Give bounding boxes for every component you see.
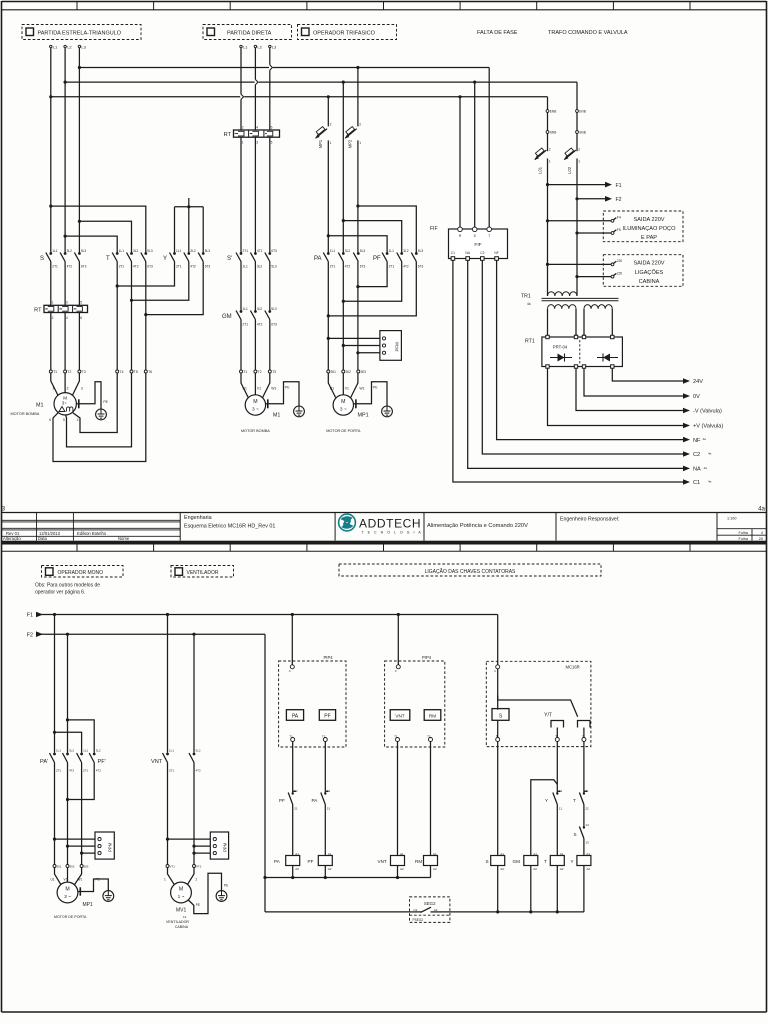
svg-text:4T2: 4T2 bbox=[190, 264, 196, 268]
svg-text:21: 21 bbox=[294, 806, 298, 810]
transformer TR1 secondary B bbox=[584, 305, 612, 309]
svg-text:L3: L3 bbox=[81, 44, 86, 49]
svg-text:W1: W1 bbox=[271, 387, 276, 391]
contactor T pole 1 bbox=[116, 252, 119, 255]
svg-text:A1: A1 bbox=[295, 852, 299, 856]
wire branch PF' pole1 bbox=[55, 732, 82, 753]
svg-text:5: 5 bbox=[63, 418, 65, 422]
svg-text:C1: C1 bbox=[693, 480, 700, 486]
svg-text:PE: PE bbox=[196, 903, 200, 907]
wire Y pole1 join T4 bbox=[117, 262, 174, 287]
wire Y aux to T coil bbox=[556, 805, 558, 856]
svg-text:4a: 4a bbox=[704, 466, 708, 470]
wire 0V out bbox=[584, 368, 684, 396]
terminal 302 (porta) bbox=[66, 865, 69, 868]
svg-text:U1: U1 bbox=[330, 387, 334, 391]
svg-text:CABINA: CABINA bbox=[175, 925, 189, 929]
svg-text:A1: A1 bbox=[586, 852, 590, 856]
wire Y coil to lower rail corner bbox=[583, 866, 585, 912]
ground PE (motor M1) bbox=[76, 403, 79, 405]
svg-text:2: 2 bbox=[67, 387, 69, 391]
svg-text:NA: NA bbox=[693, 467, 701, 473]
wire PA' pole1 down bbox=[54, 763, 56, 865]
aux contact T (NC) bbox=[583, 792, 585, 794]
arrow NF bbox=[683, 437, 690, 443]
terminal SNB right bbox=[576, 131, 579, 134]
svg-text:VNT: VNT bbox=[378, 859, 387, 864]
svg-text:T2: T2 bbox=[67, 370, 71, 374]
wire FIF NF out bbox=[497, 260, 684, 439]
terminal T1 bbox=[49, 370, 52, 373]
lower return rail left bbox=[265, 911, 410, 913]
wire SEG2 left stub bbox=[410, 911, 419, 913]
svg-text:3L2: 3L2 bbox=[133, 249, 139, 253]
wire T aux to S aux bbox=[583, 805, 585, 827]
aux contact S (NO) bbox=[583, 826, 585, 828]
svg-text:C: C bbox=[289, 669, 291, 673]
svg-text:5L3: 5L3 bbox=[147, 249, 153, 253]
svg-text:3: 3 bbox=[66, 301, 68, 305]
svg-text:MP1: MP1 bbox=[358, 413, 369, 419]
svg-text:A1: A1 bbox=[533, 852, 537, 856]
fuse L02 bbox=[564, 150, 576, 160]
svg-text:LIGAÇÃO DAS CHAVES CONTATORAS: LIGAÇÃO DAS CHAVES CONTATORAS bbox=[425, 568, 516, 575]
wire Y bar bbox=[175, 206, 204, 208]
svg-text:ENB: ENB bbox=[550, 110, 557, 114]
svg-text:ENB: ENB bbox=[579, 110, 586, 114]
terminal 303 bbox=[357, 370, 360, 373]
wire S aux to Y coil bbox=[583, 839, 585, 856]
svg-text:RM: RM bbox=[429, 714, 436, 719]
contactor S pole 2 bbox=[64, 252, 67, 255]
wire FIF R feed bbox=[459, 97, 461, 230]
contactor Y pole 2 bbox=[187, 252, 190, 255]
svg-text:A1: A1 bbox=[328, 852, 332, 856]
svg-text:3L2: 3L2 bbox=[345, 249, 351, 253]
svg-text:U1: U1 bbox=[243, 387, 247, 391]
wire PF pole3 join bbox=[328, 262, 416, 316]
svg-text:3L2: 3L2 bbox=[257, 264, 263, 268]
aux contact Y (NC) bbox=[556, 792, 558, 794]
svg-text:FIF: FIF bbox=[474, 242, 481, 248]
rail F2 bbox=[38, 633, 265, 635]
svg-text:T1: T1 bbox=[53, 370, 57, 374]
contactor PA pole 2 bbox=[342, 252, 345, 255]
svg-text:F1: F1 bbox=[27, 613, 33, 619]
svg-text:FALTA DE FASE: FALTA DE FASE bbox=[477, 30, 518, 36]
svg-text:6T3: 6T3 bbox=[147, 264, 153, 268]
svg-text:U1: U1 bbox=[51, 877, 55, 881]
svg-text:6: 6 bbox=[80, 316, 82, 320]
wire Y pole3 join T6 bbox=[146, 262, 203, 315]
svg-text:2T1: 2T1 bbox=[56, 769, 62, 773]
motor MV1 (ventilador) bbox=[171, 882, 192, 903]
wire S to RT bbox=[50, 262, 52, 306]
terminal L1 (partida direta) bbox=[240, 45, 242, 47]
svg-text:NA: NA bbox=[465, 251, 470, 255]
fuse MP1 bbox=[316, 129, 328, 139]
terminal VT1 bbox=[166, 865, 169, 868]
upper return rail bbox=[265, 877, 431, 879]
svg-text:4T2: 4T2 bbox=[257, 249, 263, 253]
bus L3 (top) bbox=[79, 67, 489, 69]
contactor PF pole 1 bbox=[386, 252, 389, 255]
svg-text:A1: A1 bbox=[500, 852, 504, 856]
svg-text:12: 12 bbox=[327, 789, 331, 793]
bus L1 (bottom) bbox=[51, 96, 548, 98]
wire S coil to lower rail bbox=[497, 866, 499, 912]
relay FIF bbox=[449, 229, 508, 259]
svg-text:GM: GM bbox=[513, 859, 521, 864]
svg-text:4T2: 4T2 bbox=[96, 769, 102, 773]
wire FIF NA out bbox=[468, 260, 684, 468]
svg-text:M: M bbox=[65, 887, 69, 893]
svg-text:2T1: 2T1 bbox=[389, 264, 395, 268]
svg-text:A1: A1 bbox=[560, 852, 564, 856]
arrow 24V bbox=[683, 378, 690, 384]
wire MC16R S to coil bbox=[497, 742, 499, 856]
svg-text:C: C bbox=[494, 669, 496, 673]
svg-text:2: 2 bbox=[578, 147, 580, 151]
svg-text:OPERADOR TRIFASICO: OPERADOR TRIFASICO bbox=[313, 31, 376, 37]
wire swap L1 to T3 bbox=[51, 206, 146, 252]
svg-text:2: 2 bbox=[52, 316, 54, 320]
svg-text:RT: RT bbox=[224, 132, 232, 138]
svg-text:PARTIDA DIRETA: PARTIDA DIRETA bbox=[227, 31, 272, 37]
overload relay RT (left) bbox=[44, 305, 88, 312]
wire PIP4a T1 down bbox=[292, 742, 294, 793]
svg-text:SEG2: SEG2 bbox=[424, 901, 436, 906]
svg-text:VNT: VNT bbox=[151, 759, 163, 765]
svg-text:2: 2 bbox=[242, 125, 244, 129]
terminal T2 bbox=[64, 370, 67, 373]
wire PA poles down bbox=[327, 262, 329, 370]
switch SEG2 bbox=[410, 897, 450, 923]
svg-text:5L3: 5L3 bbox=[418, 249, 424, 253]
svg-text:Folha: Folha bbox=[739, 531, 749, 535]
wire F2 tap bbox=[577, 198, 605, 200]
svg-text:T6: T6 bbox=[148, 370, 152, 374]
svg-text:A2: A2 bbox=[328, 867, 332, 871]
contactor Y pole 3 bbox=[202, 252, 205, 255]
svg-text:5L3: 5L3 bbox=[271, 264, 277, 268]
svg-text:3L2: 3L2 bbox=[190, 249, 196, 253]
svg-text:MOTOR DE PORTA: MOTOR DE PORTA bbox=[54, 915, 87, 919]
svg-text:T: T bbox=[573, 798, 576, 803]
ground PE (MP1 bottom) bbox=[78, 891, 80, 893]
svg-text:303: 303 bbox=[84, 865, 89, 869]
wire T contactor to T4-T6 terminals bbox=[116, 262, 118, 370]
svg-text:PE: PE bbox=[285, 386, 290, 390]
svg-text:5L3: 5L3 bbox=[81, 249, 87, 253]
svg-text:4T2: 4T2 bbox=[345, 264, 351, 268]
contactor PA pole 3 bbox=[357, 252, 360, 255]
wire MP2 to PA pole3 bbox=[357, 140, 359, 252]
wire S-L3 drop bbox=[78, 48, 80, 253]
arrow C1 bbox=[683, 479, 690, 485]
wire branch to PF pole3 bbox=[358, 206, 416, 253]
wire motor MV1 top leads bbox=[168, 868, 175, 885]
svg-text:5: 5 bbox=[271, 141, 273, 145]
svg-text:FIF: FIF bbox=[430, 226, 438, 232]
svg-text:A2: A2 bbox=[433, 867, 437, 871]
svg-text:1L1: 1L1 bbox=[330, 249, 336, 253]
svg-text:LIGAÇÕES: LIGAÇÕES bbox=[635, 269, 664, 276]
contactor GM pole 1 bbox=[240, 310, 243, 313]
svg-text:6: 6 bbox=[49, 418, 51, 422]
coil T bbox=[550, 856, 564, 866]
motor MP1 (porta) bbox=[333, 395, 353, 415]
svg-text:PPM: PPM bbox=[222, 842, 227, 852]
wire VNT pole2 down bbox=[193, 763, 195, 865]
svg-text:NF: NF bbox=[494, 251, 498, 255]
wire motor MP1b top leads bbox=[55, 868, 62, 885]
svg-text:PE: PE bbox=[103, 400, 108, 404]
bus L2 (middle) bbox=[65, 81, 577, 83]
wire F2 to VNT pole2 bbox=[193, 634, 195, 753]
svg-text:11: 11 bbox=[559, 806, 562, 810]
svg-text:4a: 4a bbox=[708, 452, 712, 456]
svg-text:F4: F4 bbox=[617, 216, 621, 220]
coil PF bbox=[318, 856, 332, 866]
svg-text:T5: T5 bbox=[134, 370, 138, 374]
wire taps to PPM (ventilador) bbox=[168, 838, 214, 840]
svg-text:PA: PA bbox=[274, 859, 281, 864]
svg-text:14: 14 bbox=[585, 823, 589, 827]
svg-text:W1: W1 bbox=[78, 877, 83, 881]
svg-text:2T1: 2T1 bbox=[330, 264, 336, 268]
svg-text:1: 1 bbox=[52, 301, 54, 305]
svg-text:3L2: 3L2 bbox=[69, 748, 74, 752]
aux contact PA (NC) bbox=[324, 792, 326, 794]
svg-text:2T1: 2T1 bbox=[83, 769, 89, 773]
svg-text:6T3: 6T3 bbox=[418, 264, 424, 268]
svg-text:ADDTECH: ADDTECH bbox=[359, 517, 421, 531]
svg-text:PF': PF' bbox=[98, 759, 106, 765]
svg-text:6T3: 6T3 bbox=[205, 264, 211, 268]
svg-text:PA: PA bbox=[314, 256, 322, 262]
wire MC16R Y down bbox=[583, 742, 585, 793]
contactor S pole 1 bbox=[49, 252, 52, 255]
wire 220 tap b bbox=[577, 276, 611, 278]
svg-text:PF: PF bbox=[279, 798, 285, 803]
svg-text:Y: Y bbox=[571, 859, 574, 864]
svg-text:C: C bbox=[395, 669, 397, 673]
svg-text:PARTIDA ESTRELA-TRIANGULO: PARTIDA ESTRELA-TRIANGULO bbox=[38, 31, 122, 37]
svg-text:SAIDA 220V: SAIDA 220V bbox=[633, 261, 664, 267]
wire RT to motor terminals bbox=[50, 313, 52, 370]
module PPM (porta) bbox=[95, 832, 114, 859]
svg-text:-V (Valvula): -V (Valvula) bbox=[693, 409, 722, 415]
svg-text:2T1: 2T1 bbox=[52, 264, 58, 268]
wire PIP4a T2 down bbox=[324, 742, 326, 793]
contactor PF pole 3 bbox=[415, 252, 418, 255]
svg-text:L01: L01 bbox=[537, 166, 542, 174]
svg-text:2: 2 bbox=[359, 123, 361, 127]
svg-text:W1: W1 bbox=[359, 387, 364, 391]
svg-text:2T1: 2T1 bbox=[176, 264, 182, 268]
contactor S' pole 3 bbox=[268, 252, 271, 255]
svg-text:C2: C2 bbox=[480, 251, 484, 255]
contactor GM pole 2 bbox=[254, 310, 257, 313]
wire MP1 to PA pole1 bbox=[327, 140, 329, 252]
svg-text:+V (Valvula): +V (Valvula) bbox=[693, 424, 723, 430]
wire T coil to lower rail bbox=[556, 866, 558, 912]
svg-text:21: 21 bbox=[585, 789, 589, 793]
svg-text:220: 220 bbox=[617, 259, 623, 263]
wire Y drops bbox=[174, 207, 176, 253]
svg-text:M: M bbox=[341, 399, 345, 405]
top zone band ticks bbox=[76, 2, 78, 10]
svg-text:Data: Data bbox=[38, 536, 48, 541]
svg-text:3L2: 3L2 bbox=[67, 249, 73, 253]
legend box OPERADOR MONO bbox=[42, 566, 124, 578]
svg-text:2T1: 2T1 bbox=[119, 264, 125, 268]
wire F1 to PIP4a C bbox=[291, 615, 293, 665]
svg-text:4T2: 4T2 bbox=[257, 322, 263, 326]
svg-text:L1: L1 bbox=[53, 44, 58, 49]
svg-text:303: 303 bbox=[361, 370, 367, 374]
svg-text:22: 22 bbox=[294, 789, 298, 793]
svg-text:A1: A1 bbox=[400, 852, 404, 856]
fuse MP1 feed bbox=[327, 97, 329, 127]
terminal L1 (estrela-triangulo) bbox=[50, 45, 52, 47]
svg-text:L3: L3 bbox=[272, 44, 277, 49]
terminal T1 (direta) bbox=[240, 370, 243, 373]
arrow 0V bbox=[683, 393, 690, 399]
svg-text:1L1: 1L1 bbox=[52, 249, 58, 253]
wire PF aux to PA coil bbox=[292, 805, 294, 856]
svg-text:4: 4 bbox=[256, 125, 258, 129]
terminal L3 (partida direta) bbox=[269, 45, 271, 47]
wire PF' pole1 down bbox=[81, 763, 83, 865]
wire GM to motor M1b bbox=[240, 320, 242, 370]
svg-text:4T2: 4T2 bbox=[196, 769, 202, 773]
svg-text:Nome: Nome bbox=[118, 536, 130, 541]
svg-text:L2: L2 bbox=[257, 44, 262, 49]
svg-text:24V: 24V bbox=[693, 379, 703, 385]
wire PF' pole2 merge bbox=[68, 763, 95, 800]
svg-text:M: M bbox=[253, 399, 257, 405]
terminal T5 bbox=[130, 370, 133, 373]
svg-text:1: 1 bbox=[242, 141, 244, 145]
wire motor MP1 top leads bbox=[328, 373, 335, 397]
wire S-L1 drop bbox=[50, 48, 52, 253]
terminal T3 bbox=[78, 370, 81, 373]
terminal 303 (porta) bbox=[80, 865, 83, 868]
svg-text:T3: T3 bbox=[82, 370, 86, 374]
legend box OPERADOR TRIFASICO bbox=[298, 25, 397, 40]
output box SAIDA 220V LIGACOES bbox=[603, 255, 683, 287]
contactor PF' pole1 bbox=[80, 753, 83, 756]
svg-text:4: 4 bbox=[77, 418, 79, 422]
svg-text:MC16R: MC16R bbox=[566, 664, 580, 669]
svg-text:0V: 0V bbox=[693, 394, 700, 400]
svg-text:Engenheiro Responsável:: Engenheiro Responsável: bbox=[560, 517, 619, 523]
wire branch to PF pole1 bbox=[328, 236, 387, 253]
terminal T6 bbox=[144, 370, 147, 373]
contactor S' pole 1 bbox=[240, 252, 243, 255]
contactor PA' pole2 bbox=[66, 753, 69, 756]
svg-text:Obs: Para outros modelos de: Obs: Para outros modelos de bbox=[35, 583, 100, 589]
output box SAIDA 220V ILUMINACAO bbox=[603, 211, 683, 242]
contactor S pole 3 bbox=[78, 252, 81, 255]
wire VNT pole1 down bbox=[167, 763, 169, 865]
legend box VENTILADOR bbox=[171, 566, 234, 578]
contactor S' pole 2 bbox=[254, 252, 257, 255]
svg-text:3L2: 3L2 bbox=[96, 748, 101, 752]
svg-text:PA: PA bbox=[312, 798, 319, 803]
svg-text:4T2: 4T2 bbox=[67, 264, 73, 268]
svg-text:4a: 4a bbox=[703, 437, 707, 441]
wire GM branch bbox=[531, 780, 558, 856]
arrow F2 bbox=[605, 196, 612, 202]
svg-text:20: 20 bbox=[759, 537, 763, 541]
svg-text:L1: L1 bbox=[243, 44, 248, 49]
fuse MP2 feed bbox=[357, 68, 359, 127]
arrow NA bbox=[683, 466, 690, 472]
ground PE (motor M1b) bbox=[265, 403, 267, 405]
svg-text:5L3: 5L3 bbox=[205, 249, 211, 253]
svg-text:PF: PF bbox=[373, 256, 381, 262]
wire GM coil to lower rail bbox=[530, 866, 532, 912]
terminal T3 (direta) bbox=[268, 370, 271, 373]
wire F1 to PA' pole1 bbox=[54, 615, 56, 753]
rail F1 bbox=[38, 614, 498, 616]
svg-text:1L1: 1L1 bbox=[176, 249, 182, 253]
svg-text:C1: C1 bbox=[451, 251, 455, 255]
ground PE (motor MP1) bbox=[354, 403, 356, 405]
svg-text:PF: PF bbox=[308, 859, 314, 864]
svg-text:1: 1 bbox=[52, 387, 54, 391]
terminal 301 (porta) bbox=[53, 865, 56, 868]
svg-text:PE: PE bbox=[96, 878, 100, 882]
svg-text:OPERADOR MONO: OPERADOR MONO bbox=[58, 570, 104, 576]
svg-text:4T2: 4T2 bbox=[403, 264, 409, 268]
wire trafo left drop bbox=[547, 97, 549, 151]
svg-text:A2: A2 bbox=[560, 867, 564, 871]
motor M1 direta bbox=[245, 395, 265, 415]
wire swap L2 to T1 bbox=[65, 236, 117, 252]
box PIP4 b bbox=[385, 661, 445, 747]
wire F1 to VNT pole1 bbox=[167, 615, 169, 753]
coil PA bbox=[286, 856, 300, 866]
svg-text:PE: PE bbox=[224, 884, 228, 888]
svg-text:301: 301 bbox=[331, 370, 337, 374]
svg-text:T3: T3 bbox=[272, 370, 276, 374]
svg-text:S': S' bbox=[227, 256, 232, 262]
svg-text:PIP4: PIP4 bbox=[324, 655, 334, 660]
svg-text:PFM: PFM bbox=[395, 342, 400, 352]
contactor VNT pole2 bbox=[193, 753, 196, 756]
wire VNT coil to rail bbox=[397, 866, 399, 878]
svg-text:PA: PA bbox=[292, 714, 299, 720]
transformer TR1 primary bbox=[548, 292, 578, 296]
wire crossing hops (direta verticals) bbox=[269, 65, 273, 70]
wire F1 to MC16R C bbox=[497, 615, 499, 665]
wire secondary to rectifier bbox=[547, 309, 549, 335]
svg-text:PRT-04: PRT-04 bbox=[553, 345, 568, 350]
wire PIP4b T1 to VNT coil bbox=[397, 742, 399, 856]
svg-text:Y/T: Y/T bbox=[544, 713, 552, 719]
motor MP1 (porta, bottom) bbox=[57, 882, 78, 903]
coil RM bbox=[424, 856, 438, 866]
svg-text:A2: A2 bbox=[295, 867, 299, 871]
svg-text:A1: A1 bbox=[433, 852, 437, 856]
svg-text:TR1: TR1 bbox=[521, 294, 531, 300]
svg-text:1: 1 bbox=[578, 160, 580, 164]
svg-text:4: 4 bbox=[761, 531, 763, 535]
